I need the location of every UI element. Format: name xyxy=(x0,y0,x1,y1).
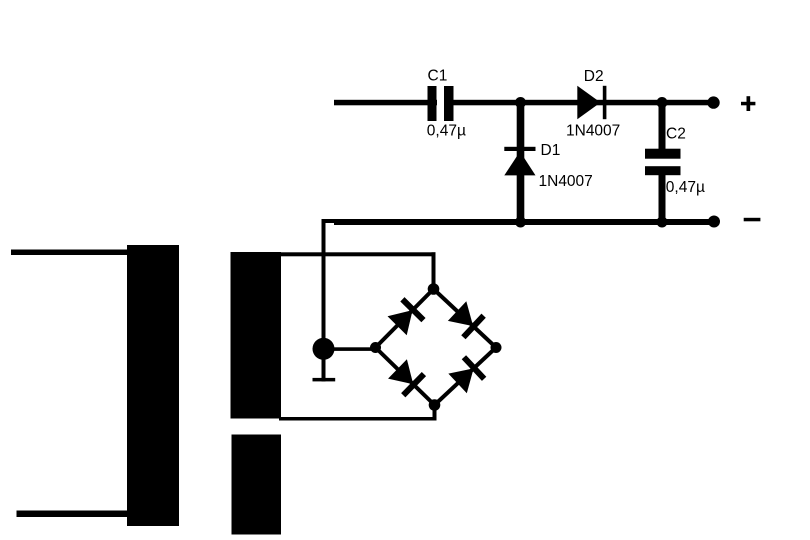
bridge side wire left-top xyxy=(376,289,434,348)
svg-text:1N4007: 1N4007 xyxy=(566,123,620,140)
wire common dot to bridge left vertex xyxy=(323,347,376,351)
wire secondary top to bridge top vertical xyxy=(432,252,436,289)
bridge diode bottom-right xyxy=(447,355,486,394)
wire C2 branch lower xyxy=(659,175,666,222)
capacitor C2 xyxy=(645,149,681,176)
wire minus rail left connector xyxy=(322,219,338,223)
minus sign xyxy=(744,218,761,222)
transformer secondary winding lower xyxy=(232,435,282,535)
bridge side wire bottom-right xyxy=(435,348,497,406)
bridge node left xyxy=(370,342,381,353)
junction node plus rail / C2 xyxy=(657,97,668,108)
bridge diode top-right xyxy=(447,300,486,339)
svg-text:D1: D1 xyxy=(541,142,561,159)
node secondary common big dot xyxy=(313,338,335,360)
svg-text:D2: D2 xyxy=(584,68,604,85)
bridge diode bottom-left xyxy=(387,358,426,397)
diode D2 xyxy=(577,86,606,119)
bridge node bottom xyxy=(429,399,441,411)
terminal plus output xyxy=(707,96,719,108)
bridge diode top-left xyxy=(387,297,426,336)
junction node plus rail / D1 xyxy=(515,97,526,108)
ground xyxy=(313,378,336,382)
capacitor C1 xyxy=(428,86,454,121)
wire primary bottom lead xyxy=(17,511,128,518)
junction node minus rail / C2 xyxy=(657,217,668,228)
wire secondary top to bridge top horizontal xyxy=(279,252,436,256)
wire plus rail left segment xyxy=(334,100,437,106)
bridge node top xyxy=(428,283,440,295)
svg-text:0,47µ: 0,47µ xyxy=(666,179,705,196)
wire plus rail right segment xyxy=(444,100,713,106)
svg-text:C2: C2 xyxy=(666,126,686,143)
wire C2 branch upper xyxy=(659,103,666,150)
svg-text:0,47µ: 0,47µ xyxy=(427,122,466,139)
bridge side wire left-bottom xyxy=(376,348,435,406)
diode D1 xyxy=(504,147,535,176)
transformer primary winding xyxy=(127,245,179,526)
transformer secondary winding upper xyxy=(231,252,282,419)
bridge side wire top-right xyxy=(434,289,497,348)
wire primary top lead xyxy=(11,250,127,256)
wire minus rail xyxy=(334,219,714,225)
junction node minus rail / D1 xyxy=(515,217,526,228)
wire secondary bottom to bridge bottom horizontal xyxy=(279,417,437,421)
wire D1 branch vertical xyxy=(517,103,525,222)
terminal minus output xyxy=(708,216,720,228)
plus sign xyxy=(741,96,755,111)
wire secondary bottom to bridge bottom vertical xyxy=(433,405,437,421)
svg-text:1N4007: 1N4007 xyxy=(539,173,593,190)
wire minus rail to ground vertical xyxy=(322,219,326,382)
svg-text:C1: C1 xyxy=(428,68,448,85)
bridge node right xyxy=(491,342,502,353)
